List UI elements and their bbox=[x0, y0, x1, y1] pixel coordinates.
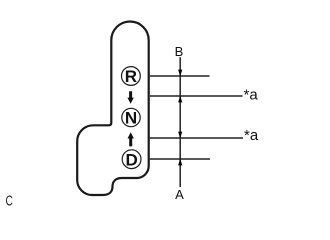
shift gate outline bbox=[77, 22, 149, 195]
dimension line 1 (R level) bbox=[150, 75, 210, 77]
arrowhead down at line 3 bbox=[178, 132, 182, 139]
dimension line 2 (*a upper) bbox=[150, 95, 243, 97]
svg-text:R: R bbox=[125, 67, 137, 86]
circle R bbox=[121, 67, 140, 86]
circle N bbox=[122, 108, 140, 126]
svg-text:*a: *a bbox=[244, 127, 259, 144]
arrow N to D (up) bbox=[128, 132, 134, 146]
svg-text:*a: *a bbox=[244, 87, 259, 104]
svg-text:A: A bbox=[175, 187, 184, 202]
vertical dimension line bbox=[179, 57, 181, 187]
dimension line 4 (D level) bbox=[150, 158, 210, 160]
svg-text:D: D bbox=[125, 150, 137, 169]
svg-text:B: B bbox=[175, 44, 184, 59]
svg-text:C: C bbox=[6, 191, 13, 209]
arrowhead up at line 2 bbox=[178, 96, 182, 103]
arrow R to N (down) bbox=[127, 91, 133, 104]
circle D bbox=[122, 150, 141, 169]
svg-text:N: N bbox=[125, 109, 137, 128]
arrowhead down at line 1 bbox=[178, 70, 182, 77]
arrowhead up at line 4 bbox=[178, 159, 182, 166]
dimension line 3 (*a lower) bbox=[150, 137, 243, 139]
